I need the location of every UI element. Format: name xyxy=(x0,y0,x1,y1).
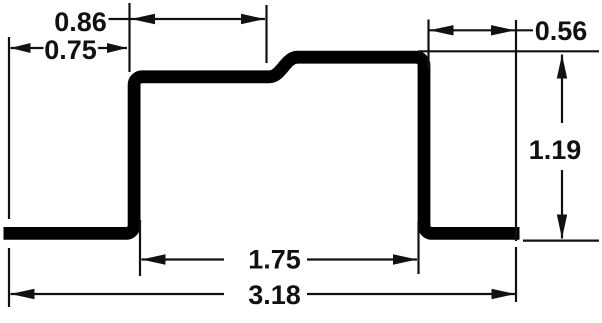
svg-text:0.86: 0.86 xyxy=(54,7,107,37)
svg-text:0.75: 0.75 xyxy=(44,35,97,65)
svg-text:3.18: 3.18 xyxy=(248,280,301,310)
svg-text:0.56: 0.56 xyxy=(535,16,588,46)
svg-text:1.19: 1.19 xyxy=(529,135,582,165)
svg-text:1.75: 1.75 xyxy=(248,245,301,275)
